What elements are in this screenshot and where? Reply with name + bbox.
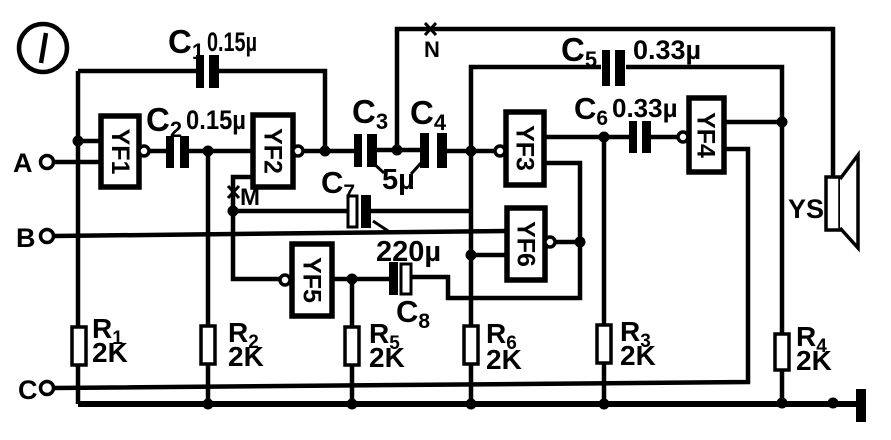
- label R5 value: [369, 318, 405, 373]
- svg-text:0.33µ: 0.33µ: [612, 93, 678, 123]
- svg-text:M: M: [240, 184, 260, 211]
- output bubble YF1: [139, 146, 149, 156]
- wire YF5 output to C8: [332, 277, 389, 282]
- capacitor C8 electrolytic: [389, 262, 411, 295]
- svg-text:C: C: [18, 375, 38, 405]
- wire YF3 output to C6: [544, 135, 629, 140]
- svg-text:YF2: YF2: [259, 128, 287, 174]
- wire node N vertical and top rail to speaker: [397, 29, 833, 177]
- node junction YF3 output (R3 tap): [599, 132, 610, 143]
- label R6 value: [486, 318, 522, 375]
- wire bottom ground rail: [78, 401, 857, 407]
- input bubble YF3: [495, 146, 505, 156]
- svg-text:N: N: [424, 37, 440, 62]
- svg-text:A: A: [13, 148, 33, 178]
- resistor R4: [775, 334, 789, 370]
- svg-text:2K: 2K: [369, 342, 405, 373]
- node junction after C2 (R2 tap): [203, 146, 214, 157]
- node junction YF4 output: [777, 117, 788, 128]
- wire top-left C1 bridge from left rail to YF2 output node: [78, 71, 325, 151]
- svg-text:YF6: YF6: [512, 221, 540, 267]
- resistor R2: [201, 326, 215, 364]
- node junction YF6 output: [575, 237, 586, 248]
- label R2 value: [228, 317, 264, 372]
- svg-text:2K: 2K: [92, 337, 128, 368]
- node M junction dot: [228, 206, 239, 217]
- wire YF3 lower output to YF6 output node: [410, 163, 580, 298]
- wire YF4 lower pin to C rail: [54, 149, 748, 388]
- svg-text:YF1: YF1: [106, 129, 134, 175]
- resistor R3: [597, 325, 611, 363]
- wire R5 column vertical: [350, 279, 355, 404]
- svg-text:YF5: YF5: [298, 257, 326, 303]
- svg-text:5µ: 5µ: [382, 164, 415, 196]
- svg-text:220µ: 220µ: [376, 236, 441, 268]
- input bubble YF5: [280, 275, 290, 285]
- svg-text:0.33µ: 0.33µ: [633, 35, 701, 65]
- figure number circle 1: [19, 24, 67, 72]
- svg-text:YF4: YF4: [692, 112, 720, 158]
- wire C3 to C4: [377, 148, 420, 153]
- capacitor C6: [629, 121, 651, 153]
- wire YF1 output to C2: [149, 149, 166, 154]
- node junction YF2 output / C1 feedback: [320, 146, 331, 157]
- wire input A to YF1: [54, 160, 101, 165]
- svg-text:2K: 2K: [228, 341, 264, 372]
- svg-text:0.15µ: 0.15µ: [207, 27, 257, 57]
- wire R3 column vertical: [602, 137, 607, 404]
- node junction R4 at ground rail: [777, 398, 788, 409]
- svg-text:YS: YS: [788, 194, 824, 224]
- op-amp block YF1: [101, 116, 139, 187]
- terminal C: [41, 382, 54, 395]
- label C1 value: [168, 23, 257, 64]
- label R1 value: [92, 313, 128, 368]
- node junction YF5 output (R5 tap): [347, 274, 358, 285]
- wire stub to YF1 upper input: [78, 139, 101, 144]
- svg-text:0.15µ: 0.15µ: [186, 105, 246, 135]
- wire YF6 bubble to node: [555, 240, 580, 245]
- node M cross mark: [228, 186, 239, 198]
- output bubble YF6: [545, 237, 555, 247]
- capacitor C7 electrolytic: [348, 195, 391, 233]
- node junction R6 at ground rail: [466, 399, 477, 410]
- op-amp block YF2: [253, 115, 293, 187]
- wire left vertical rail (A column): [76, 71, 81, 404]
- wire C4 to YF3 input: [447, 149, 495, 154]
- label R3 value: [620, 316, 656, 371]
- capacitor C4: [420, 133, 447, 168]
- op-amp block YF6: [507, 208, 545, 280]
- resistor R5: [345, 327, 359, 365]
- svg-text:2K: 2K: [486, 344, 522, 375]
- label C6 value: [574, 91, 678, 130]
- wire input B to YF6 upper input: [54, 231, 507, 236]
- svg-text:YF3: YF3: [511, 125, 539, 171]
- node junction between C3 and C4 (to N): [392, 145, 403, 156]
- wire R2 column vertical: [206, 151, 211, 404]
- capacitor C5: [602, 50, 625, 86]
- capacitor C3: [354, 134, 377, 167]
- op-amp block YF3: [506, 112, 544, 185]
- node junction speaker at ground rail: [828, 398, 839, 409]
- leader tick C3 to 5u: [372, 162, 384, 173]
- capacitor C2: [166, 136, 189, 168]
- node junction YF6 lower input tap: [466, 250, 477, 261]
- wire C2 to YF2 input: [189, 149, 253, 154]
- node junction R2 at ground rail: [203, 399, 214, 410]
- label R4 value: [796, 321, 832, 376]
- leader tick C4 to 5u: [411, 163, 421, 174]
- wire C4-node column vertical down to R6: [469, 151, 474, 404]
- node N cross mark: [425, 23, 436, 35]
- loudspeaker YS: [826, 155, 858, 248]
- wire YF4 output to right column: [724, 120, 782, 125]
- ground symbol: [856, 389, 866, 422]
- wire C7 line from node M through C7 to C4 node column: [233, 209, 471, 214]
- op-amp block YF4: [689, 98, 724, 172]
- terminal B: [41, 230, 54, 243]
- node junction R3 at ground rail: [599, 399, 610, 410]
- input bubble YF4: [678, 132, 688, 142]
- svg-text:2K: 2K: [796, 345, 832, 376]
- svg-text:B: B: [16, 223, 36, 253]
- terminal A: [41, 156, 54, 169]
- wire C6 to YF4 input: [651, 135, 678, 140]
- wire YF2 output to C3: [303, 149, 354, 154]
- output bubble YF2: [293, 146, 303, 156]
- label C2 value: [146, 101, 246, 142]
- svg-text:2K: 2K: [620, 340, 656, 371]
- resistor R1: [72, 327, 86, 365]
- capacitor C1: [196, 55, 219, 88]
- wire C5 bridge from node to YF4 output node: [471, 67, 782, 151]
- wire to YF6 lower input: [471, 253, 507, 258]
- label C5 value: [561, 31, 701, 72]
- node junction R5 at ground rail: [347, 399, 358, 410]
- wire YF2 lower input stub to node M: [233, 177, 280, 279]
- node junction C4 output / C5 tap: [466, 146, 477, 157]
- resistor R6: [464, 326, 478, 364]
- wire R4 column vertical: [780, 122, 785, 403]
- op-amp block YF5: [292, 244, 332, 316]
- node junction at YF1 upper input: [73, 136, 84, 147]
